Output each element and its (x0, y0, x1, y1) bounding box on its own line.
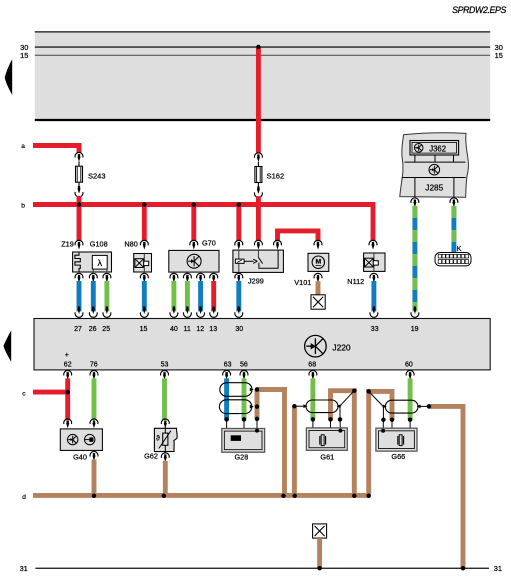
label Z19 (61, 240, 74, 249)
connector below G70 pin 2 (183, 273, 191, 282)
pin number 68 (308, 362, 316, 369)
shield oval G28 upper (220, 383, 254, 397)
node c label (22, 391, 26, 398)
connector below fuse S243 (75, 186, 83, 197)
svg-text:N112: N112 (347, 277, 364, 286)
svg-text:Z19: Z19 (61, 240, 74, 249)
wire pin 68 to G61 (green) (310, 378, 315, 419)
connector into Z19/G108 (75, 240, 83, 249)
pin number 13 (209, 326, 217, 333)
connector into J220 pin 40 (170, 306, 178, 317)
svg-text:31: 31 (494, 564, 502, 573)
label J362 (429, 144, 446, 153)
connector into J220 pin 30 (235, 306, 243, 317)
svg-text:ϑ: ϑ (156, 436, 160, 443)
immobiliser control unit block J362/J285 (400, 133, 469, 197)
wire pin 76 to G40 (green) (92, 378, 97, 420)
pin number 40 (170, 326, 178, 333)
svg-text:19: 19 (411, 326, 419, 333)
connector above fuse S162 (254, 153, 262, 162)
connector out of J220 pin 56 (240, 370, 248, 379)
svg-text:J362: J362 (429, 144, 446, 153)
junction bus d / G61 return (352, 494, 357, 499)
connector into J220 pin 26 (89, 306, 97, 317)
wire a (red) from left edge to fuse S243 (33, 146, 79, 153)
label V101 (294, 278, 311, 287)
wire bus d (brown) (33, 493, 369, 498)
wire J285 to pin 19 (green/blue) (412, 206, 417, 312)
wire pin 60 to G66 (green) (408, 378, 413, 419)
svg-text:M: M (315, 258, 321, 265)
connector into J299 supply (254, 240, 262, 249)
shield oval G28 lower (219, 400, 253, 414)
knock sensor G61 (306, 428, 347, 450)
wire fuse S243 to bus b (red) (77, 196, 82, 207)
svg-text:G62: G62 (144, 451, 158, 460)
connector below G70 pin 1 (170, 273, 178, 282)
pin number 27 (74, 326, 82, 333)
shield oval G61 (306, 400, 338, 413)
wire bus b to J299 coil (red) (236, 205, 241, 241)
junction bus d / G62 (162, 494, 167, 499)
svg-text:G66: G66 (391, 452, 405, 461)
connector below G108 pin 2 (103, 273, 111, 282)
svg-text:G40: G40 (73, 452, 87, 461)
supply rail band 30/15 (35, 31, 490, 120)
engine speed sender G28 (222, 429, 265, 453)
connector below N112 pin (370, 273, 378, 282)
connector out of J220 pin 76 (90, 370, 98, 379)
label S243 (88, 171, 106, 180)
fuse S243 (76, 162, 83, 188)
svg-text:76: 76 (90, 362, 98, 369)
shield drain G61 left to bus d (brown) (292, 406, 297, 495)
junction G61 drain top (352, 388, 357, 393)
solenoid valve N112 (364, 253, 385, 271)
left pointer arrow middle (3, 330, 11, 362)
heater element Z19 with lambda probe G108 (73, 252, 112, 272)
connector into G40 pin 1 (64, 419, 72, 428)
connector into G70 (190, 240, 198, 249)
svg-text:30: 30 (235, 326, 243, 333)
wire fuse S162 to relay J299 pin (red) (256, 196, 261, 241)
wire G62 to bus d (brown) (163, 461, 168, 496)
connector into G62 (161, 419, 169, 428)
svg-text:33: 33 (371, 326, 379, 333)
wire c (red) joining pin 62 wire (33, 390, 68, 395)
wire to pin 30 (blue) (236, 281, 241, 311)
coolant temperature sender G62 (154, 426, 177, 452)
connector into J220 pin 19 (411, 306, 419, 317)
connector out of J220 pin 53 (161, 370, 169, 379)
pin number 12 (196, 326, 204, 333)
pin number 26 (89, 326, 97, 333)
junction rail 31 / G66 shield (461, 566, 466, 571)
junction G66 drain top (366, 389, 371, 394)
diagnostic connector K (435, 253, 471, 266)
rail 15 (35, 54, 490, 56)
connector below G62 (161, 453, 169, 462)
pin number 53 (161, 362, 169, 369)
junction bus d / G40 (92, 494, 97, 499)
connector into N112 (369, 240, 377, 249)
svg-text:+: + (65, 352, 69, 359)
camshaft position sender G40 (60, 429, 102, 451)
pin number 63 (224, 362, 232, 369)
wire pin 62 to G40 (red) (65, 378, 70, 420)
svg-text:K: K (457, 246, 462, 253)
knock sensor G66 (376, 428, 417, 451)
shield diagonal G61 (337, 391, 355, 420)
svg-text:S243: S243 (88, 171, 106, 180)
label 31 left (20, 564, 28, 573)
label G61 (320, 453, 334, 462)
left pointer arrow top (5, 59, 13, 95)
relay J299 (233, 250, 284, 272)
svg-text:63: 63 (224, 362, 232, 369)
label G108 (90, 240, 108, 249)
wire pin 53 to G62 (green) (162, 378, 167, 420)
plus sign at pin 62 (65, 352, 69, 359)
svg-text:27: 27 (74, 326, 82, 333)
svg-text:N80: N80 (124, 240, 137, 249)
terminal dots into G61 (311, 417, 343, 422)
connector below J285 right (450, 198, 458, 207)
connector into N80 (140, 240, 148, 249)
label G40 (73, 452, 87, 461)
svg-text:J285: J285 (425, 183, 443, 193)
pump motor V101 (308, 253, 329, 271)
junction shield lower (255, 404, 260, 409)
shield oval G66 (385, 400, 418, 413)
svg-text:15: 15 (20, 51, 28, 60)
svg-text:V101: V101 (294, 278, 311, 287)
wire bus b to Z19/G108 (red) (77, 205, 82, 241)
wire to pin 15 (blue) (142, 281, 147, 311)
wire to pin 26 (blue) (91, 281, 96, 311)
harness ground point above J220 (311, 295, 325, 309)
svg-text:53: 53 (161, 362, 169, 369)
wire to pin 11 (green) (185, 281, 190, 311)
node b label (21, 203, 25, 210)
svg-text:56: 56 (240, 362, 248, 369)
wire to pin 13 (red) (211, 281, 216, 311)
svg-text:J299: J299 (248, 277, 264, 286)
pin number 60 (405, 362, 413, 369)
connector into J220 pin 15 (140, 306, 148, 317)
wire to pin 40 (green) (171, 281, 176, 311)
shield diagonal G66 (369, 391, 387, 419)
junction bus b at S243 (77, 202, 82, 207)
connector out of J220 pin 62 (64, 370, 72, 379)
pin number 25 (102, 326, 110, 333)
junction bus b at J299 (237, 202, 242, 207)
pin number 30 (235, 326, 243, 333)
label G70 (202, 239, 216, 248)
leads into G28 (227, 419, 257, 441)
connector into J220 pin 27 (75, 306, 83, 317)
label N80 (124, 240, 137, 249)
wire bus b to N80 (red) (142, 205, 147, 241)
connector below N80 pin (140, 273, 148, 282)
junction shield G61 left (292, 404, 297, 409)
junction shield upper (255, 387, 260, 392)
node d label (22, 494, 26, 501)
junction on rail 30 (256, 45, 261, 50)
svg-text:62: 62 (64, 362, 72, 369)
pin number 15 (140, 326, 148, 333)
connector into J220 pin 12 (197, 306, 205, 317)
connector into J220 pin 11 (183, 306, 191, 317)
svg-text:d: d (22, 494, 26, 501)
connector into V101 (314, 240, 322, 249)
junction bus d / G61 shield (292, 494, 297, 499)
wire J285 to connector K (green/blue) (451, 206, 456, 253)
svg-text:60: 60 (405, 362, 413, 369)
fuse S162 (255, 162, 262, 188)
label G62 (144, 451, 158, 460)
pin number 11 (184, 326, 191, 333)
connector below fuse S162 (254, 186, 262, 197)
wire to pin 25 (green) (104, 281, 109, 311)
signal return G66 (brown) from bus d corner (369, 391, 392, 495)
wire V101 to harness ground (brown) (316, 281, 321, 295)
leads into G61 (313, 419, 341, 439)
terminal dots into G28 (224, 417, 259, 422)
wire G40 to bus d (brown) (92, 460, 97, 496)
svg-text:SPRDW2.EPS: SPRDW2.EPS (452, 5, 506, 15)
svg-text:12: 12 (196, 326, 204, 333)
pin number 33 (371, 326, 379, 333)
pin number 76 (90, 362, 98, 369)
connector out of J220 pin 68 (309, 370, 317, 379)
junction rail 31 / ground X (317, 566, 322, 571)
svg-text:15: 15 (140, 326, 148, 333)
junction c wire (65, 390, 70, 395)
svg-text:25: 25 (102, 326, 110, 333)
shield drain G28 (brown) (257, 390, 285, 496)
svg-text:a: a (21, 143, 25, 150)
svg-text:λ: λ (97, 258, 102, 269)
wire to pin 12 (blue) (198, 281, 203, 311)
wire to pin 33 (blue) (371, 281, 376, 311)
connector into J299 coil (235, 240, 243, 249)
terminal dots into G66 (381, 417, 412, 422)
connector below G70 pin 4 (210, 273, 218, 282)
svg-text:26: 26 (89, 326, 97, 333)
solenoid valve N80 (134, 254, 152, 273)
wire bus b to G70 (red) (191, 205, 196, 241)
air mass meter G70 (169, 250, 219, 272)
label 30 right (495, 43, 503, 52)
connector below V101 ground pin (314, 273, 322, 282)
shield link wire G66 right (417, 405, 429, 409)
shield drain G66 right to rail 31 (brown) (429, 406, 463, 568)
wire bus b (red) with corner down to N112 (33, 205, 373, 241)
junction bus d / G66 return (366, 494, 371, 499)
svg-text:40: 40 (170, 326, 178, 333)
label J299 (248, 277, 264, 286)
title SPRDW2.EPS (452, 5, 506, 15)
svg-text:31: 31 (20, 564, 28, 573)
wire pin 63 to G28 (blue) (224, 378, 229, 419)
label K (457, 246, 462, 253)
connector into J220 pin 13 (210, 306, 218, 317)
pin number 62 (64, 362, 72, 369)
label J285 (425, 183, 443, 193)
connector below Z19 pin (75, 273, 83, 282)
svg-text:S162: S162 (267, 171, 285, 180)
pin number 19 (411, 326, 419, 333)
connector below G40 (90, 451, 98, 460)
label S162 (267, 171, 285, 180)
connector above fuse S243 (75, 152, 83, 161)
label G28 (235, 452, 249, 461)
wire to pin 27 (blue) (77, 281, 82, 311)
engine control unit band J220 (34, 319, 490, 370)
connector below G70 pin 3 (197, 273, 205, 282)
wire ground X to rail 31 (brown) (317, 538, 322, 568)
connector below G108 pin 1 (89, 273, 97, 282)
svg-text:b: b (21, 203, 25, 210)
svg-text:G70: G70 (202, 239, 216, 248)
label J220 (332, 342, 351, 352)
connector below J299 pin 30 (235, 273, 243, 282)
wire pin 56 to G28 (green) (242, 378, 247, 419)
label 31 right (494, 564, 502, 573)
leads into G66 (383, 420, 410, 441)
connector below J285 left (411, 198, 419, 207)
ground rail 31 (35, 567, 489, 569)
connector out of J220 pin 60 (406, 370, 414, 379)
wire rail 30 to fuse S162 (red) (256, 47, 261, 153)
svg-text:68: 68 (308, 362, 316, 369)
connector into J299 output (274, 240, 282, 249)
label 15 right (495, 51, 503, 60)
junction bus b at N80 (142, 202, 147, 207)
signal return G61 (brown) from bus d (331, 391, 355, 496)
connector into G40 pin 2 (90, 419, 98, 428)
connector into J220 pin 25 (103, 306, 111, 317)
svg-text:G108: G108 (90, 240, 108, 249)
shield link wire G61 left (294, 404, 307, 408)
junction shield G66 right (427, 404, 432, 409)
label 30 left (20, 43, 28, 52)
rail 30 (35, 46, 490, 48)
junction bus b at G70 (192, 202, 197, 207)
junction bus d / G28 shield (281, 494, 286, 499)
connector out of J220 pin 63 (223, 370, 231, 379)
svg-text:G61: G61 (320, 453, 334, 462)
op icon J220 (305, 335, 327, 357)
connector into J220 pin 33 (370, 306, 378, 317)
svg-text:13: 13 (209, 326, 217, 333)
node a label (21, 143, 25, 150)
svg-text:J220: J220 (332, 342, 351, 352)
label 15 left (20, 51, 28, 60)
pin number 56 (240, 362, 248, 369)
svg-text:15: 15 (495, 51, 503, 60)
label G66 (391, 452, 405, 461)
wire J299 output to V101 (red) (278, 231, 319, 241)
svg-text:11: 11 (184, 326, 191, 333)
harness ground point for bus d (313, 524, 327, 538)
label N112 (347, 277, 364, 286)
svg-text:G28: G28 (235, 452, 249, 461)
